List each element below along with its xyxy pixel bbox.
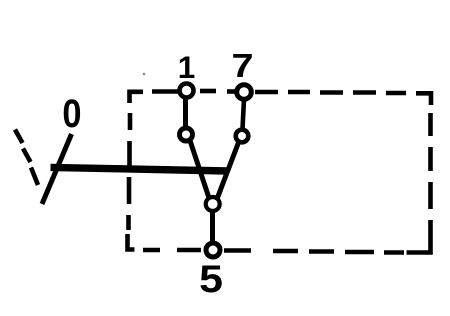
wire: pivot to terminal 5, vertical xyxy=(210,208,215,243)
wire: switch-body dashed outline, bottom edge xyxy=(128,234,405,253)
wire: terminal 7 to contact, vertical xyxy=(243,99,245,129)
wire: left moving-contact branch (contact 1 to pivot) xyxy=(190,141,210,200)
svg-text:5: 5 xyxy=(199,257,223,301)
contact circle under terminal 1 xyxy=(180,128,193,141)
wire: switch-body dashed outline, left edge xyxy=(129,113,131,230)
wire: switch-body dashed outline, top edge xyxy=(130,91,432,105)
terminal 5 circle xyxy=(206,243,220,257)
wire: right moving-contact branch (contact 7 to pivot) xyxy=(217,143,239,200)
wire: actuator bar (thick horizontal) xyxy=(51,167,229,171)
wire: switch-body dashed outline, right edge xyxy=(407,113,431,253)
terminal 7 circle xyxy=(237,85,252,100)
svg-text:1: 1 xyxy=(178,49,196,85)
wire: terminal 1 to contact, vertical xyxy=(183,97,188,128)
wire: lever arm solid diagonal (position 0) xyxy=(42,134,72,204)
wire: lever alternate position dashed diagonal xyxy=(15,130,38,186)
svg-text:7: 7 xyxy=(231,47,253,84)
contact circle under terminal 7 xyxy=(236,130,249,143)
speck xyxy=(143,73,146,76)
terminal 1 circle xyxy=(180,84,194,98)
pivot contact circle xyxy=(206,197,220,211)
svg-text:0: 0 xyxy=(62,91,81,136)
